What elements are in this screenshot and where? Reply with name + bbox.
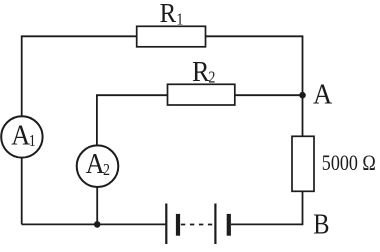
wire top-right segment down to resistor [206, 36, 303, 136]
svg-text:A: A [11, 120, 30, 151]
battery dashed link (more cells) [181, 224, 212, 226]
wire from R2 left down to ammeter A2 [97, 95, 168, 145]
resistor R2 [168, 84, 235, 105]
wire from ammeter A2 down to junction [96, 187, 98, 225]
resistor R1 [137, 26, 206, 47]
svg-text:2: 2 [103, 161, 110, 179]
svg-text:R: R [160, 0, 177, 28]
wire bottom rail left to battery [22, 223, 166, 225]
wire from battery right to node B up to resistor [231, 191, 303, 224]
wire from R2 right to node A [235, 94, 303, 96]
battery plate long 2 [214, 204, 216, 245]
resistor 5000 ohm (vertical) [292, 136, 314, 191]
ammeter A2 [77, 145, 119, 187]
battery plate long 1 [165, 204, 167, 245]
svg-text:1: 1 [29, 132, 36, 150]
svg-text:1: 1 [176, 10, 183, 28]
wire left-vertical and top-left segment [22, 36, 137, 116]
svg-text:2: 2 [208, 68, 215, 86]
wire from ammeter A1 down to bottom rail [21, 158, 23, 225]
node A junction dot [299, 92, 306, 99]
ammeter A2 label [86, 148, 110, 179]
junction dot on bottom rail [94, 221, 101, 228]
svg-text:A: A [86, 148, 105, 179]
label R1 [160, 0, 184, 29]
ammeter A1 label [11, 120, 36, 151]
label R2 [192, 56, 215, 87]
svg-text:B: B [313, 207, 329, 239]
svg-text:A: A [313, 79, 332, 111]
ammeter A1 [1, 116, 42, 157]
svg-text:5000 Ω: 5000 Ω [322, 151, 376, 175]
battery plate short 1 [176, 214, 180, 236]
svg-text:R: R [192, 56, 210, 87]
battery plate short 2 [227, 214, 231, 236]
